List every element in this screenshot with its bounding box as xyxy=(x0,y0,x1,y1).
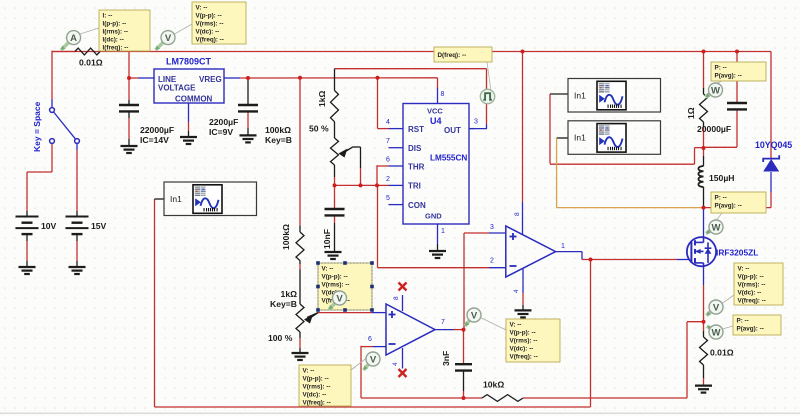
svg-text:4: 4 xyxy=(513,289,520,293)
svg-text:50 %: 50 % xyxy=(309,124,329,134)
svg-text:Key = Space: Key = Space xyxy=(32,101,42,152)
svg-text:V: V xyxy=(165,33,172,44)
svg-text:1: 1 xyxy=(441,228,445,235)
svg-text:W: W xyxy=(711,85,720,96)
svg-text:V(rms): --: V(rms): -- xyxy=(322,281,350,288)
svg-text:10YQ045: 10YQ045 xyxy=(755,140,792,150)
svg-text:100kΩ: 100kΩ xyxy=(281,224,291,250)
svg-text:1kΩ: 1kΩ xyxy=(317,90,327,107)
svg-text:D(freq): --: D(freq): -- xyxy=(438,52,467,59)
svg-text:3: 3 xyxy=(474,119,478,126)
svg-text:P: --: P: -- xyxy=(737,317,749,324)
svg-text:V(rms): --: V(rms): -- xyxy=(738,281,766,288)
svg-text:A: A xyxy=(70,33,77,44)
svg-text:V(p-p): --: V(p-p): -- xyxy=(322,273,348,280)
svg-text:V(freq): --: V(freq): -- xyxy=(738,297,766,304)
svg-text:8: 8 xyxy=(441,91,445,98)
svg-text:V: --: V: -- xyxy=(738,265,750,272)
svg-text:2200µF: 2200µF xyxy=(209,117,238,127)
svg-text:5: 5 xyxy=(386,195,390,202)
svg-text:P: --: P: -- xyxy=(715,194,727,201)
svg-text:8: 8 xyxy=(393,296,400,300)
svg-text:V(rms): --: V(rms): -- xyxy=(303,383,331,390)
svg-text:3nF: 3nF xyxy=(441,351,451,366)
svg-text:I(dc): --: I(dc): -- xyxy=(103,36,124,43)
svg-text:1kΩ: 1kΩ xyxy=(281,289,298,299)
svg-text:RST: RST xyxy=(408,125,424,134)
svg-text:V: --: V: -- xyxy=(196,4,208,11)
svg-text:VREG: VREG xyxy=(199,75,222,84)
svg-text:V: --: V: -- xyxy=(510,321,522,328)
svg-text:THR: THR xyxy=(408,163,425,172)
svg-text:V(dc): --: V(dc): -- xyxy=(303,391,327,398)
svg-text:In1: In1 xyxy=(574,133,586,143)
svg-text:7: 7 xyxy=(441,319,445,326)
svg-text:V: V xyxy=(370,354,377,365)
svg-text:V: --: V: -- xyxy=(322,265,334,272)
svg-text:4: 4 xyxy=(386,119,390,126)
svg-text:1: 1 xyxy=(561,243,565,250)
svg-text:V(rms): --: V(rms): -- xyxy=(196,20,224,27)
svg-text:VOLTAGE: VOLTAGE xyxy=(158,84,196,93)
svg-text:Key=B: Key=B xyxy=(270,299,297,309)
svg-text:V(p-p): --: V(p-p): -- xyxy=(738,273,764,280)
svg-text:V: V xyxy=(336,293,343,304)
svg-text:10kΩ: 10kΩ xyxy=(483,380,504,390)
svg-text:P(avg): --: P(avg): -- xyxy=(737,325,764,332)
svg-text:P(avg): --: P(avg): -- xyxy=(715,72,742,79)
svg-text:V: V xyxy=(713,302,720,313)
svg-text:10V: 10V xyxy=(41,221,57,231)
svg-text:7: 7 xyxy=(386,138,390,145)
svg-text:6: 6 xyxy=(368,336,372,343)
svg-text:LM555CN: LM555CN xyxy=(430,154,467,163)
svg-text:150µH: 150µH xyxy=(709,173,735,183)
svg-text:CON: CON xyxy=(408,201,426,210)
svg-text:15V: 15V xyxy=(91,221,107,231)
svg-text:GND: GND xyxy=(425,212,442,221)
svg-text:COMMON: COMMON xyxy=(175,95,213,104)
svg-text:V(p-p): --: V(p-p): -- xyxy=(303,375,329,382)
svg-text:IC=14V: IC=14V xyxy=(140,135,169,145)
svg-text:DIS: DIS xyxy=(408,144,422,153)
svg-text:V(freq): --: V(freq): -- xyxy=(510,353,538,360)
svg-text:P: --: P: -- xyxy=(715,64,727,71)
svg-text:2: 2 xyxy=(490,258,494,265)
svg-text:100kΩ: 100kΩ xyxy=(265,125,291,135)
svg-text:P(avg): --: P(avg): -- xyxy=(715,202,742,209)
svg-text:22000µF: 22000µF xyxy=(140,125,174,135)
svg-text:1Ω: 1Ω xyxy=(686,107,696,119)
svg-text:Key=B: Key=B xyxy=(265,135,292,145)
svg-text:V(dc): --: V(dc): -- xyxy=(196,28,220,35)
svg-text:10nF: 10nF xyxy=(322,229,332,249)
svg-text:V(dc): --: V(dc): -- xyxy=(738,289,762,296)
svg-text:TRI: TRI xyxy=(408,182,421,191)
svg-text:V(freq): --: V(freq): -- xyxy=(196,36,224,43)
svg-text:U4: U4 xyxy=(430,116,442,126)
svg-text:VCC: VCC xyxy=(427,107,443,116)
svg-text:IC=9V: IC=9V xyxy=(209,127,233,137)
svg-text:W: W xyxy=(712,222,721,233)
svg-text:W: W xyxy=(712,327,721,338)
svg-text:100 %: 100 % xyxy=(268,333,293,343)
svg-text:V(rms): --: V(rms): -- xyxy=(510,337,538,344)
svg-text:I(freq): --: I(freq): -- xyxy=(103,44,129,51)
svg-text:IRF3205ZL: IRF3205ZL xyxy=(716,248,758,258)
svg-text:2: 2 xyxy=(386,176,390,183)
svg-text:0.01Ω: 0.01Ω xyxy=(79,58,103,68)
svg-text:I: --: I: -- xyxy=(103,12,113,19)
svg-text:V: --: V: -- xyxy=(303,367,315,374)
svg-text:8: 8 xyxy=(514,212,521,216)
svg-text:I(rms): --: I(rms): -- xyxy=(103,28,129,35)
svg-text:I(p-p): --: I(p-p): -- xyxy=(103,20,127,27)
svg-text:20000µF: 20000µF xyxy=(697,124,731,134)
svg-text:OUT: OUT xyxy=(444,126,461,135)
svg-text:0.01Ω: 0.01Ω xyxy=(710,348,734,358)
svg-text:V(p-p): --: V(p-p): -- xyxy=(196,12,222,19)
svg-text:V: V xyxy=(471,310,478,321)
svg-text:In1: In1 xyxy=(574,90,586,100)
svg-text:In1: In1 xyxy=(170,194,182,204)
svg-text:V(dc): --: V(dc): -- xyxy=(510,345,534,352)
svg-text:3: 3 xyxy=(490,224,494,231)
svg-text:LM7809CT: LM7809CT xyxy=(166,57,212,67)
svg-text:V(p-p): --: V(p-p): -- xyxy=(510,329,536,336)
svg-text:6: 6 xyxy=(386,157,390,164)
svg-text:V(freq): --: V(freq): -- xyxy=(303,399,331,406)
svg-text:4: 4 xyxy=(392,362,399,366)
